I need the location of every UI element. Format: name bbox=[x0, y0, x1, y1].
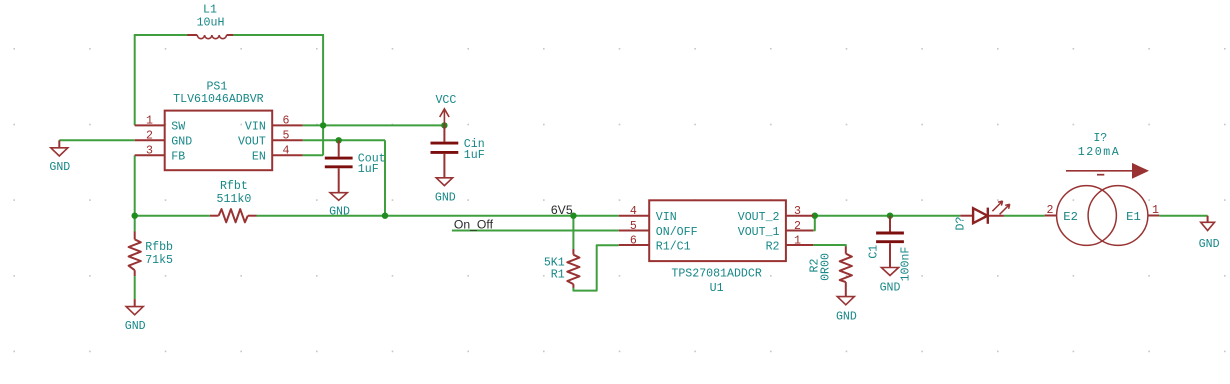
resistor Rfbb bbox=[129, 232, 141, 277]
svg-text:GND: GND bbox=[836, 310, 857, 323]
svg-text:FB: FB bbox=[171, 151, 185, 164]
svg-text:U1: U1 bbox=[710, 282, 724, 295]
svg-text:PS1: PS1 bbox=[206, 80, 227, 93]
U1 pin 5 number bbox=[630, 220, 637, 233]
svg-text:2: 2 bbox=[1047, 204, 1054, 217]
svg-text:E1: E1 bbox=[1126, 210, 1141, 224]
svg-text:71k5: 71k5 bbox=[145, 254, 173, 267]
svg-text:511k0: 511k0 bbox=[217, 193, 252, 206]
IC U1 body bbox=[619, 200, 814, 261]
LED D? bbox=[960, 201, 1010, 224]
ground below R2 bbox=[837, 297, 854, 305]
svg-text:R1/C1: R1/C1 bbox=[656, 240, 691, 253]
wire top horizontal left of L1 bbox=[134, 34, 188, 36]
GND label left bbox=[49, 161, 70, 174]
PS1 pin 3 number bbox=[146, 145, 153, 158]
Rfbb value label 71k5 bbox=[145, 254, 173, 267]
svg-text:GND: GND bbox=[171, 136, 192, 149]
svg-text:5: 5 bbox=[630, 220, 637, 233]
svg-text:On_Off: On_Off bbox=[454, 218, 494, 232]
PS1 pin name VIN bbox=[245, 121, 266, 134]
L1 reference label bbox=[203, 3, 217, 16]
svg-text:4: 4 bbox=[630, 205, 637, 218]
current source I? (coupled circles) bbox=[1045, 186, 1160, 246]
svg-text:R1: R1 bbox=[551, 269, 565, 282]
PS1 pin name FB bbox=[171, 151, 185, 164]
wire R1 bottom to U1 R1/C1 bbox=[573, 245, 618, 290]
svg-text:1: 1 bbox=[146, 115, 153, 128]
svg-text:2: 2 bbox=[794, 220, 801, 233]
D? reference label bbox=[955, 217, 968, 231]
Rfbt reference label bbox=[220, 180, 248, 193]
svg-text:0R00: 0R00 bbox=[820, 253, 833, 281]
svg-text:5: 5 bbox=[283, 130, 290, 143]
capacitor Cin bbox=[431, 125, 459, 185]
Cin reference label bbox=[464, 138, 485, 151]
PS1 pin 4 number bbox=[283, 145, 290, 158]
PS1 pin name GND bbox=[171, 136, 192, 149]
svg-text:100nF: 100nF bbox=[899, 247, 912, 282]
R2 reference label bbox=[808, 259, 821, 273]
svg-text:VCC: VCC bbox=[435, 94, 456, 107]
wire EN horizontal bbox=[303, 154, 323, 156]
junction 6V5/R1 node bbox=[570, 213, 576, 219]
svg-text:3: 3 bbox=[794, 205, 801, 218]
wire VIN to VCC bbox=[303, 124, 445, 126]
capacitor C1 bbox=[876, 216, 904, 276]
GND label below Cout bbox=[329, 205, 350, 218]
svg-text:1: 1 bbox=[794, 234, 801, 247]
C1 reference label bbox=[868, 245, 881, 259]
U1 pin name VOUT_2 bbox=[738, 211, 780, 224]
Rfbb reference label bbox=[145, 241, 173, 254]
junction VOUT drop on bus bbox=[382, 213, 388, 219]
wire node 6V5 down to R1 bbox=[572, 216, 574, 249]
U1 pin name R1/C1 bbox=[656, 240, 691, 253]
capacitor Cout bbox=[325, 140, 353, 200]
GND label below C1 bbox=[880, 281, 901, 294]
GND label below Rfbb bbox=[125, 320, 146, 333]
I? port name E2 bbox=[1063, 210, 1078, 224]
wire 6V5 bus (Rfbt to U1 VIN) bbox=[257, 215, 619, 217]
wire Rfbb to ground bbox=[134, 276, 136, 299]
svg-text:GND: GND bbox=[1199, 238, 1220, 251]
wire bus left segment bbox=[135, 215, 210, 217]
GND label below Cin bbox=[435, 191, 456, 204]
U1 value label TPS27081ADDCR bbox=[671, 267, 761, 280]
svg-text:6: 6 bbox=[283, 115, 290, 128]
svg-text:GND: GND bbox=[49, 161, 70, 174]
R1 value label 5K1 bbox=[544, 257, 565, 270]
VCC label bbox=[435, 94, 456, 107]
wire VOUT horizontal bbox=[303, 139, 385, 141]
svg-text:VIN: VIN bbox=[245, 121, 266, 134]
I? reference label bbox=[1093, 132, 1107, 145]
Rfbt value label 511k0 bbox=[217, 193, 252, 206]
svg-text:R2: R2 bbox=[766, 240, 780, 253]
U1 pin name R2 bbox=[766, 240, 780, 253]
wire EN riser to VIN node bbox=[322, 125, 324, 155]
svg-text:VOUT_2: VOUT_2 bbox=[738, 211, 780, 224]
svg-text:VIN: VIN bbox=[656, 211, 677, 224]
svg-text:I?: I? bbox=[1093, 132, 1107, 145]
R2 value label 0R00 bbox=[820, 253, 833, 281]
svg-text:C1: C1 bbox=[868, 245, 881, 259]
wire top-right vertical (L1 to VIN node) bbox=[322, 35, 324, 125]
U1 pin name VOUT_1 bbox=[738, 226, 780, 239]
GND label right bbox=[1199, 238, 1220, 251]
U1 pin 1 number bbox=[794, 234, 801, 247]
svg-text:TPS27081ADDCR: TPS27081ADDCR bbox=[671, 267, 761, 280]
wire FB down to feedback node bbox=[134, 155, 136, 215]
U1 pin 2 number bbox=[794, 220, 801, 233]
U1 pin name ON/OFF bbox=[656, 226, 698, 239]
junction C1 node bbox=[887, 213, 893, 219]
U1 pin 4 number bbox=[630, 205, 637, 218]
resistor R2 bbox=[840, 247, 852, 297]
wire U1 outputs to LED bbox=[813, 215, 960, 217]
wire top-left vertical (SW to L1) bbox=[134, 35, 136, 125]
junction feedback node bbox=[132, 213, 138, 219]
Cout reference label bbox=[358, 153, 386, 166]
I? value label 120mA bbox=[1078, 146, 1121, 159]
resistor Rfbt bbox=[210, 209, 257, 222]
op-amp/IC PS1 body bbox=[135, 111, 303, 171]
PS1 pin 6 number bbox=[283, 115, 290, 128]
PS1 value label TLV61046ADBVR bbox=[173, 93, 263, 106]
svg-text:SW: SW bbox=[171, 121, 185, 134]
power flag VCC bbox=[440, 109, 449, 126]
PS1 pin 2 number bbox=[146, 130, 153, 143]
I? current direction arrow bbox=[1066, 163, 1149, 179]
svg-text:VOUT_1: VOUT_1 bbox=[738, 226, 780, 239]
net label On_Off bbox=[454, 218, 494, 232]
R1 reference label bbox=[551, 269, 565, 282]
wire E1 to ground bbox=[1159, 215, 1207, 217]
L1 value label 10uH bbox=[197, 16, 225, 29]
I? pin 1 number bbox=[1152, 204, 1159, 217]
wire U1 R2 pin to R2 bbox=[813, 245, 846, 247]
svg-text:1uF: 1uF bbox=[358, 163, 379, 176]
U1 reference label bbox=[710, 282, 724, 295]
PS1 pin name SW bbox=[171, 121, 185, 134]
PS1 pin name VOUT bbox=[238, 136, 266, 149]
svg-text:VOUT: VOUT bbox=[238, 136, 266, 149]
resistor R1 bbox=[567, 249, 579, 288]
svg-text:3: 3 bbox=[146, 145, 153, 158]
C1 value label 100nF bbox=[899, 247, 912, 282]
U1 pin name VIN bbox=[656, 211, 677, 224]
GND label below R2 bbox=[836, 310, 857, 323]
svg-text:1: 1 bbox=[1152, 204, 1159, 217]
wire LED to E2 bbox=[1004, 215, 1045, 217]
wire VOUT drop to 6V5 bus bbox=[384, 140, 386, 215]
svg-text:GND: GND bbox=[329, 205, 350, 218]
PS1 pin name EN bbox=[252, 151, 266, 164]
svg-text:120mA: 120mA bbox=[1078, 146, 1121, 159]
svg-text:1uF: 1uF bbox=[464, 149, 485, 162]
wire On_Off to U1 ON/OFF bbox=[452, 230, 619, 232]
svg-text:D?: D? bbox=[955, 217, 968, 231]
svg-text:6: 6 bbox=[630, 234, 637, 247]
U1 pin 6 number bbox=[630, 234, 637, 247]
PS1 pin 1 number bbox=[146, 115, 153, 128]
svg-text:2: 2 bbox=[146, 130, 153, 143]
U1 pin 3 number bbox=[794, 205, 801, 218]
svg-text:L1: L1 bbox=[203, 3, 217, 16]
junction VIN/EN/L1 node bbox=[320, 122, 326, 128]
Cout value label 1uF bbox=[358, 163, 379, 176]
svg-text:E2: E2 bbox=[1063, 210, 1078, 224]
svg-text:GND: GND bbox=[125, 320, 146, 333]
svg-text:Rfbt: Rfbt bbox=[220, 180, 248, 193]
svg-text:GND: GND bbox=[435, 191, 456, 204]
net label 6V5 bbox=[551, 203, 573, 217]
ground at PS1 GND pin bbox=[51, 140, 68, 156]
ground below Rfbb bbox=[126, 299, 143, 315]
svg-text:10uH: 10uH bbox=[197, 16, 225, 29]
wire GND pin 2 to ground bbox=[59, 139, 134, 141]
svg-text:Rfbb: Rfbb bbox=[145, 241, 173, 254]
svg-text:4: 4 bbox=[283, 145, 290, 158]
svg-text:GND: GND bbox=[880, 281, 901, 294]
wire feedback node down to Rfbb bbox=[134, 216, 136, 232]
svg-text:TLV61046ADBVR: TLV61046ADBVR bbox=[173, 93, 263, 106]
svg-text:ON/OFF: ON/OFF bbox=[656, 226, 698, 239]
inductor L1 bbox=[187, 35, 233, 39]
wire top horizontal right of L1 bbox=[233, 34, 324, 36]
junction VOUT/Cout node bbox=[336, 137, 342, 143]
junction VCC node bbox=[441, 122, 447, 128]
svg-text:6V5: 6V5 bbox=[551, 203, 573, 217]
I? pin 2 number bbox=[1047, 204, 1054, 217]
PS1 pin 5 number bbox=[283, 130, 290, 143]
junction U1 output node bbox=[812, 213, 818, 219]
ground at E1 output bbox=[1201, 216, 1215, 231]
PS1 reference label bbox=[206, 80, 227, 93]
Cin value label 1uF bbox=[464, 149, 485, 162]
svg-text:EN: EN bbox=[252, 151, 266, 164]
I? port name E1 bbox=[1126, 210, 1141, 224]
wire VOUT_1 riser bbox=[813, 216, 815, 231]
